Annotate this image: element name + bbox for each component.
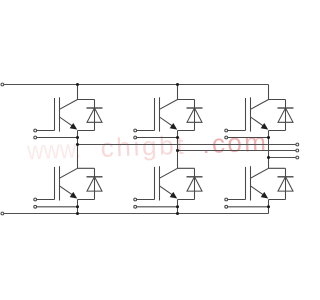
svg-text:chigbt: chigbt <box>100 130 185 163</box>
svg-text:.com: .com <box>202 127 267 159</box>
